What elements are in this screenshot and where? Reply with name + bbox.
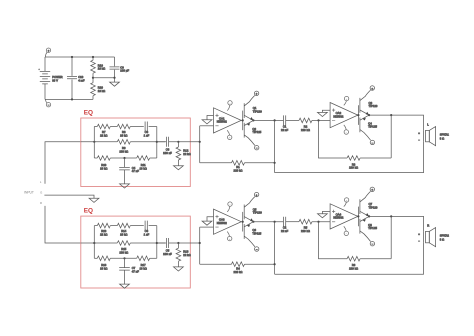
wire EQ left vertical ch2 [93,226,95,259]
svg-text:1 nF: 1 nF [144,133,150,137]
node emitters ch1 stage1 [252,119,254,121]
wire base tee ch1 stage2 [357,105,359,125]
input connector J1 labels [24,180,42,205]
resistor R12 22k [176,142,191,166]
node R12 tap ch1 [177,141,179,143]
transistor Q5 TIP120 [244,192,262,221]
op-amp OA4 NE5532 [330,204,358,229]
svg-text:47 nF: 47 nF [132,169,139,173]
node OA2 input tap [317,119,319,121]
svg-text:EQ: EQ [84,208,93,215]
svg-text:+: + [418,132,420,135]
svg-text:R1: R1 [236,165,240,169]
node R1 right ch1 [274,162,276,164]
resistor R4 220k feedback [200,262,275,274]
svg-text:R14: R14 [121,229,127,233]
flag V- below OA1 [227,130,232,140]
node feedback tap ch2 stage2 [390,215,392,217]
ground input G [89,198,99,202]
capacitor C4 47nF [119,158,139,184]
svg-text:TIP125: TIP125 [252,231,261,235]
svg-text:22 kΩ: 22 kΩ [183,253,190,257]
ground below C4 [120,184,130,188]
node R19/R20 midpoint [92,77,94,79]
wire jog vertical ch2 [199,227,201,264]
speaker SPKR1 8ohm [418,123,449,146]
svg-text:R8: R8 [122,130,126,134]
transistor Q1 TIP120 [244,91,262,120]
svg-text:L: L [427,123,429,127]
capacitor C10 4mF [67,57,85,99]
flag V+ above OA4 [344,198,349,207]
svg-text:C6: C6 [145,229,149,233]
resistor R13 22k [94,223,117,236]
svg-text:C2: C2 [283,226,287,230]
svg-text:L: L [40,180,42,184]
node jog ch1 [199,141,201,143]
wire ch1 signal into EQ [81,141,118,143]
wire to OA1 inverting input [200,125,214,127]
node base tee ch1 [242,119,244,121]
resistor R20 10k [91,78,105,100]
wire OA1 + input to ground [207,116,214,120]
svg-text:R20: R20 [98,86,104,90]
svg-text:C10: C10 [78,75,84,79]
capacitor C6 1nF [144,221,157,237]
capacitor C2 22nF [281,217,288,233]
resistor R15 100k [117,241,165,255]
svg-text:100 nF: 100 nF [163,151,172,155]
node B ch1 [156,141,158,143]
svg-text:NE5532: NE5532 [217,221,227,225]
wire OA4 + input to ground [322,212,330,214]
svg-text:22 nF: 22 nF [281,229,288,233]
capacitor C7 47nF [119,258,139,284]
svg-text:TIP125: TIP125 [368,226,377,230]
node bottom mid ch2 [123,257,125,259]
wire stage2 output to speaker [369,115,423,130]
svg-text:TIP120: TIP120 [253,109,262,113]
node C9 bottom junction [113,77,115,79]
wire C2 to R5 [286,221,299,223]
flag V+ above OA3 [227,202,232,212]
svg-text:NE5532: NE5532 [333,114,343,118]
wire input L to ch1 [45,142,81,184]
ground below C9 [110,78,120,87]
node emitters ch2 stage1 [252,221,254,223]
svg-text:R13: R13 [101,229,107,233]
node jog ch2 [199,242,201,244]
resistor R1 220k feedback [200,161,275,173]
svg-text:100 nF: 100 nF [163,252,172,256]
wire stage1 output ch1 [253,119,283,121]
node base tee ch1 stage2 [357,114,359,116]
battery V1 POWER 30V [38,57,62,99]
node feedback tap ch1 [274,119,276,121]
svg-text:G: G [40,191,42,195]
wire feedback row left ch2 stage2 [319,222,348,259]
wire EQ out to opamp jog ch2 [178,242,199,244]
ground below R18 [174,267,184,271]
svg-text:NE5532: NE5532 [333,216,343,220]
svg-text:16 kΩ: 16 kΩ [120,233,127,237]
svg-text:220 kΩ: 220 kΩ [349,266,358,270]
wire EQ right vertical ch1 [156,127,158,159]
svg-text:R11: R11 [141,163,146,167]
svg-text:8 Ω: 8 Ω [440,137,444,141]
transistor Q6 TIP125 [244,222,262,252]
flag V- below OA3 [227,232,232,242]
svg-text:POWER: POWER [52,75,62,79]
resistor R19 10k [91,57,105,78]
EQ box channel 2 [81,216,191,288]
svg-text:C7: C7 [132,266,136,270]
svg-text:R2: R2 [304,124,308,128]
svg-text:NE5532: NE5532 [217,120,227,124]
svg-text:TIP125: TIP125 [252,130,261,134]
svg-text:R17: R17 [141,263,147,267]
transistor Q8 TIP125 [360,216,378,246]
node A ch2 [93,242,95,244]
node base tee ch2 [242,221,244,223]
svg-text:R3: R3 [352,162,356,166]
wire feedback vertical ch1 stage2 [390,115,392,158]
svg-text:220 kΩ: 220 kΩ [234,169,243,173]
svg-text:−: − [418,240,420,243]
svg-text:30 V: 30 V [52,79,58,83]
wire midpoint to C9 [93,77,115,79]
transistor Q4 TIP125 [360,115,378,145]
svg-text:SPKR2: SPKR2 [440,234,450,238]
wire C1 to R2 [286,119,299,121]
wire ch2 signal into EQ [81,242,118,244]
svg-text:R: R [427,224,429,228]
svg-text:47 nF: 47 nF [132,269,139,273]
svg-text:100 kΩ: 100 kΩ [119,251,128,255]
svg-text:16 kΩ: 16 kΩ [140,166,147,170]
capacitor C9 100uF [110,57,130,78]
wire OA2 + input to ground [322,110,330,112]
resistor R8 16k [117,124,144,137]
svg-text:C5: C5 [166,249,170,253]
wire OA1 output to bases [241,119,242,121]
svg-text:220 kΩ: 220 kΩ [234,270,243,274]
wire base tee ch2 [242,212,244,232]
wire speaker return ch2 [275,243,424,274]
capacitor C1 22nF [281,115,288,131]
wire jog vertical ch1 [199,126,201,163]
svg-text:R12: R12 [183,148,189,152]
wire speaker return ch1 [275,142,424,173]
svg-text:C1: C1 [283,124,287,128]
svg-text:SPKR1: SPKR1 [440,133,450,137]
transistor Q2 TIP125 [244,120,262,150]
svg-text:R5: R5 [304,226,308,230]
svg-text:R18: R18 [183,250,189,254]
resistor R2 220k [299,118,312,132]
svg-text:C3: C3 [145,130,149,134]
svg-text:22 kΩ: 22 kΩ [100,133,107,137]
svg-text:16 kΩ: 16 kΩ [140,267,147,271]
resistor R3 220k feedback [347,156,391,170]
wire OA3 output to bases [241,221,242,223]
resistor R14 16k [117,223,144,236]
svg-text:220 kΩ: 220 kΩ [349,166,358,170]
wire bottom row ch1 [110,157,136,159]
svg-text:+: + [418,233,420,236]
node base tee ch2 stage2 [357,215,359,217]
svg-text:22 kΩ: 22 kΩ [100,233,107,237]
svg-text:EQ: EQ [84,110,93,117]
ground at OA4 + input [318,214,328,218]
capacitor C3 1nF [144,122,157,138]
svg-text:10 kΩ: 10 kΩ [98,67,105,71]
wire top power rail [45,56,115,58]
transistor Q3 TIP120 [360,86,378,115]
svg-text:16 kΩ: 16 kΩ [100,166,107,170]
wire feedback vertical ch2 stage2 [390,216,392,258]
svg-text:22 nF: 22 nF [281,128,288,132]
resistor R16 16k [94,256,110,271]
op-amp OA2 NE5532 [330,103,358,128]
wire EQ out to opamp jog ch1 [178,141,199,143]
ground below R12 [174,166,184,170]
node feedback tap ch1 stage2 [390,114,392,116]
ground below C7 [120,284,130,288]
ground at OA3 + input [202,221,212,225]
wire feedback vertical ch2 [274,222,276,275]
wire base tee ch1 [242,111,244,131]
svg-text:220 kΩ: 220 kΩ [301,229,310,233]
node top rail / R19 [92,56,94,58]
wire OA2 output to bases [357,114,360,116]
svg-text:TIP125: TIP125 [368,125,377,129]
wire input G [44,195,94,198]
node R18 tap ch2 [177,242,179,244]
node bottom mid ch1 [123,157,125,159]
svg-text:R9: R9 [122,146,126,150]
svg-text:R16: R16 [101,263,107,267]
wire base tee ch2 stage2 [357,207,359,227]
svg-text:100 kΩ: 100 kΩ [119,149,128,153]
wire OA4 output to bases [357,215,360,217]
resistor R7 22k [94,124,117,137]
node B ch2 [156,242,158,244]
wire R2 to OA2 [312,119,330,121]
resistor R9 100k [117,140,165,154]
flag V- below OA4 [344,226,349,236]
wire EQ left vertical ch1 [93,127,95,159]
wire R5 to OA4 [312,221,330,223]
svg-text:R10: R10 [101,163,107,167]
node R4 right ch2 [274,263,276,265]
wire feedback row left ch1 stage2 [319,120,348,158]
node OA4 input tap [317,221,319,223]
wire to OA3 inverting input [200,226,214,228]
capacitor C8 100nF [157,137,179,155]
node feedback tap ch2 [274,221,276,223]
resistor R5 220k [299,219,312,233]
EQ box channel 1 [81,118,191,187]
svg-text:TIP120: TIP120 [253,211,262,215]
svg-text:TIP120: TIP120 [369,205,378,209]
svg-text:TIP120: TIP120 [369,104,378,108]
resistor R11 16k [137,156,157,171]
resistor R18 22k [176,243,191,267]
svg-text:R15: R15 [121,247,127,251]
wire bottom power rail [45,98,93,100]
svg-text:1 nF: 1 nF [144,233,150,237]
svg-text:R4: R4 [236,267,240,271]
wire input R to ch2 [45,206,81,243]
wire feedback vertical ch1 [274,120,276,172]
wire OA3 + input to ground [207,217,214,221]
wire stage2 output to speaker ch2 [369,216,423,231]
flag V- below OA2 [344,125,349,134]
node emitters ch1 stage2 [368,114,370,116]
svg-text:C4: C4 [132,166,136,170]
resistor R10 16k [94,156,110,171]
op-amp OA1 NE5532 [214,108,242,133]
node emitters ch2 stage2 [368,215,370,217]
flag V+ above OA1 [227,101,232,111]
speaker SPKR2 8ohm [418,224,449,247]
node A ch1 [93,141,95,143]
ground at OA2 + input [318,112,328,116]
ground at OA1 + input [202,120,212,124]
svg-text:C9: C9 [120,65,124,69]
op-amp OA3 NE5532 [214,209,242,234]
svg-text:R19: R19 [98,63,104,67]
node bottom rail / C10 [71,98,73,100]
svg-text:4 mF: 4 mF [78,79,85,83]
transistor Q7 TIP120 [360,187,378,216]
svg-text:16 kΩ: 16 kΩ [120,133,127,137]
wire stage1 output ch2 [253,221,283,223]
resistor R17 16k [137,256,157,271]
svg-text:R6: R6 [352,263,356,267]
svg-text:−: − [418,139,420,142]
flag V+ above OA2 [344,96,349,105]
svg-text:8 Ω: 8 Ω [440,238,444,242]
svg-text:INPUT: INPUT [24,191,34,195]
resistor R6 220k feedback [347,256,391,270]
svg-text:R7: R7 [102,130,106,134]
svg-text:220 kΩ: 220 kΩ [301,128,310,132]
wire bottom row ch2 [110,257,136,259]
battery positive terminal flag [45,48,50,57]
wire EQ right vertical ch2 [156,226,158,259]
battery negative terminal flag [45,99,50,107]
svg-text:16 kΩ: 16 kΩ [100,267,107,271]
svg-text:10 kΩ: 10 kΩ [98,89,105,93]
svg-text:100 µF: 100 µF [120,69,129,73]
svg-text:C8: C8 [166,147,170,151]
capacitor C5 100nF [157,238,179,256]
svg-text:22 kΩ: 22 kΩ [183,152,190,156]
node top rail / C10 [71,56,73,58]
svg-text:R: R [40,201,42,205]
